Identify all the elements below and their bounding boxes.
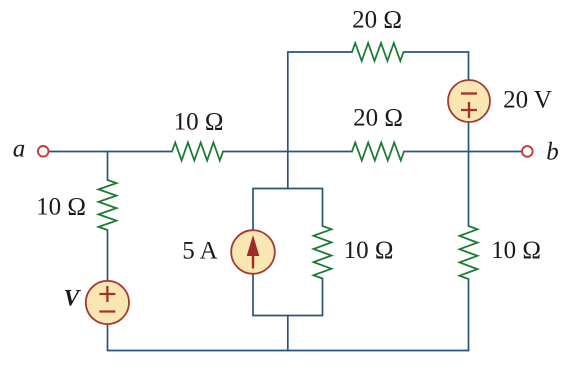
- svg-text:b: b: [546, 139, 559, 166]
- svg-text:a: a: [13, 136, 26, 163]
- svg-text:10 Ω: 10 Ω: [174, 109, 224, 136]
- svg-text:10 Ω: 10 Ω: [344, 237, 394, 264]
- svg-text:20 V: 20 V: [503, 87, 552, 114]
- svg-text:10 Ω: 10 Ω: [36, 194, 86, 221]
- svg-text:10 Ω: 10 Ω: [491, 237, 541, 264]
- svg-text:V: V: [64, 285, 82, 311]
- svg-text:20 Ω: 20 Ω: [352, 7, 402, 34]
- svg-text:5 A: 5 A: [182, 238, 217, 265]
- svg-text:20 Ω: 20 Ω: [353, 105, 403, 132]
